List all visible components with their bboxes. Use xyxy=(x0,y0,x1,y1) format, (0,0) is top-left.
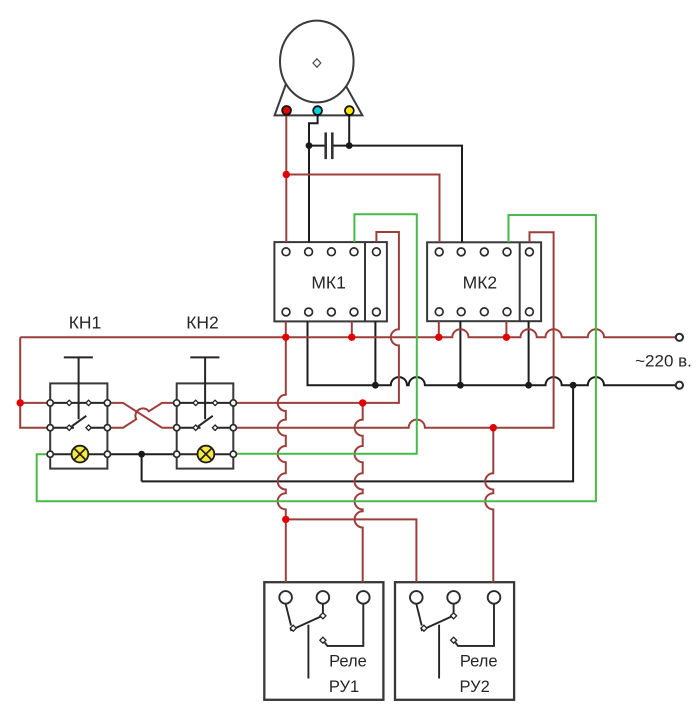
svg-text:МК1: МК1 xyxy=(311,273,346,293)
svg-text:Реле: Реле xyxy=(460,652,498,670)
svg-text:~220 в.: ~220 в. xyxy=(635,352,692,371)
svg-text:Реле: Реле xyxy=(329,652,367,670)
svg-text:КН1: КН1 xyxy=(69,313,102,333)
svg-text:РУ1: РУ1 xyxy=(329,678,359,696)
svg-text:КН2: КН2 xyxy=(186,313,219,333)
svg-text:МК2: МК2 xyxy=(463,273,498,293)
svg-text:РУ2: РУ2 xyxy=(460,678,490,696)
